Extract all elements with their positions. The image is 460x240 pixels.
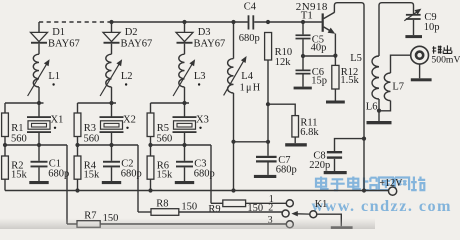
crystal X1 xyxy=(27,115,63,134)
wire collector to top rail and +12V feed xyxy=(334,3,364,139)
svg-text:680p: 680p xyxy=(276,165,297,176)
wire top line solid xyxy=(109,20,247,24)
capacitor C1 xyxy=(31,145,70,181)
ground C8 xyxy=(324,171,347,174)
resistor R5 xyxy=(147,113,172,144)
wire top dashed tuning line xyxy=(39,21,112,23)
label contact 2 xyxy=(268,202,273,213)
wire wiper to ground xyxy=(317,214,342,226)
svg-text:BAY67: BAY67 xyxy=(121,39,153,50)
switch K1 wiper xyxy=(291,199,327,218)
capacitor C7 xyxy=(256,155,297,175)
capacitor C2 xyxy=(103,145,142,181)
ground C9 xyxy=(405,35,422,38)
svg-text:L2: L2 xyxy=(121,71,133,82)
svg-text:500mV: 500mV xyxy=(431,54,460,65)
node C5-C6-emitter junction xyxy=(301,54,305,58)
resistor R8 xyxy=(138,198,282,215)
svg-text:X3: X3 xyxy=(196,115,209,126)
capacitor C6 xyxy=(296,56,327,87)
node stage3 top junction xyxy=(182,101,186,105)
svg-text:560: 560 xyxy=(157,133,173,144)
wire C5 junction to emitter xyxy=(303,55,335,57)
wire stage2 crystal column xyxy=(111,103,113,145)
diode D2 BAY67 xyxy=(103,22,152,54)
svg-text:150: 150 xyxy=(181,202,197,213)
svg-text:D3: D3 xyxy=(198,27,211,38)
svg-text:15k: 15k xyxy=(11,170,28,181)
resistor R3 xyxy=(74,113,99,144)
wire stage3 top rail xyxy=(151,102,190,104)
capacitor C3 xyxy=(176,145,215,181)
svg-text:15k: 15k xyxy=(157,170,174,181)
wire R11 feed xyxy=(268,104,295,115)
resistor R2 xyxy=(2,156,28,181)
resistor R7 xyxy=(67,210,286,227)
inductor L2 adjustable xyxy=(100,54,132,103)
ground C6 xyxy=(294,87,312,90)
inductor L7 secondary xyxy=(379,55,411,111)
svg-text:10p: 10p xyxy=(424,22,440,33)
label output 500mV xyxy=(431,45,460,65)
svg-text:15k: 15k xyxy=(84,170,101,181)
ground transformer xyxy=(367,121,392,124)
svg-text:6.8k: 6.8k xyxy=(300,127,319,138)
wire stage1 top rail xyxy=(5,102,44,104)
terminal +12V xyxy=(379,178,403,195)
resistor R12 xyxy=(332,56,360,89)
svg-text:L6: L6 xyxy=(366,101,378,112)
node L4 tap junction xyxy=(231,140,235,144)
svg-text:D2: D2 xyxy=(125,27,138,38)
svg-text:X2: X2 xyxy=(123,115,136,126)
svg-text:X1: X1 xyxy=(51,115,64,126)
diode D1 BAY67 xyxy=(31,22,80,54)
resistor R9 xyxy=(208,200,286,215)
wire stage3 left rail vertical xyxy=(150,103,152,191)
inductor L1 adjustable xyxy=(28,54,60,103)
svg-text:C4: C4 xyxy=(244,2,257,13)
svg-text:2: 2 xyxy=(268,202,273,213)
wire +12V feed lower xyxy=(363,139,365,191)
resistor R11 xyxy=(292,116,319,139)
crystal X2 xyxy=(100,115,136,134)
svg-text:560: 560 xyxy=(11,133,27,144)
ground switch xyxy=(331,226,353,229)
resistor R10 xyxy=(265,33,293,69)
svg-text:+12V: +12V xyxy=(379,178,403,189)
inductor L3 adjustable xyxy=(173,54,205,103)
wire stage3 feed to switch xyxy=(210,145,212,203)
node stage2 top junction xyxy=(109,101,113,105)
svg-text:1.5k: 1.5k xyxy=(340,75,359,86)
ground output connector xyxy=(411,78,432,81)
svg-text:L1: L1 xyxy=(48,71,60,82)
ground R11 xyxy=(285,143,307,146)
svg-text:L4: L4 xyxy=(241,71,253,82)
wire stage1 feed to switch xyxy=(66,145,68,224)
svg-text:40p: 40p xyxy=(311,43,327,54)
node stage1 top junction xyxy=(37,101,41,105)
svg-text:680p: 680p xyxy=(239,33,260,44)
wire L4 tap to C7 column xyxy=(234,141,268,143)
resistor R6 xyxy=(147,156,173,181)
svg-text:L5: L5 xyxy=(350,53,362,64)
node transformer bottom junction xyxy=(377,109,381,113)
svg-text:680p: 680p xyxy=(194,168,215,179)
ground stage3 capacitor xyxy=(175,181,194,184)
terminal contact 2 xyxy=(282,210,289,217)
inductor L4 adjustable xyxy=(224,22,262,95)
capacitor C8 xyxy=(309,139,364,172)
ground C7 xyxy=(254,175,276,178)
resistor R1 xyxy=(2,113,27,144)
svg-text:D1: D1 xyxy=(52,27,65,38)
wire stage3 middle xyxy=(148,143,211,147)
capacitor C9 trimmer xyxy=(404,9,439,35)
svg-text:K1: K1 xyxy=(315,199,327,210)
svg-text:T1: T1 xyxy=(301,10,313,22)
ground R12 xyxy=(326,101,345,104)
connector output socket xyxy=(411,46,429,78)
svg-text:220p: 220p xyxy=(309,160,330,171)
crystal X3 xyxy=(173,115,209,134)
svg-text:12k: 12k xyxy=(275,57,292,68)
svg-text:680p: 680p xyxy=(121,168,142,179)
ground stage2 capacitor xyxy=(102,181,121,184)
wire C4 to base xyxy=(254,20,322,24)
label contact 1 xyxy=(269,194,274,205)
scan shadow bottom xyxy=(0,218,375,229)
node R10-R11 junction xyxy=(266,102,270,106)
terminal contact 1 xyxy=(286,200,293,207)
wire R10 column down xyxy=(267,60,269,156)
wire base column down xyxy=(302,22,304,34)
svg-text:1μH: 1μH xyxy=(240,82,262,93)
wire stage1 crystal column xyxy=(38,103,40,145)
capacitor C4 xyxy=(239,2,260,45)
node C8 junction on +12V feed xyxy=(362,137,366,141)
wire stage2 middle xyxy=(75,143,138,147)
label contact 3 xyxy=(268,215,273,226)
svg-text:680p: 680p xyxy=(48,168,69,179)
wire stage1 left rail vertical xyxy=(4,103,6,191)
transistor T1 2N918 xyxy=(296,1,335,34)
svg-text:560: 560 xyxy=(84,133,100,144)
wire stage2 left rail vertical xyxy=(77,103,79,191)
svg-text:R8: R8 xyxy=(156,198,168,209)
svg-text:L7: L7 xyxy=(392,82,404,93)
svg-text:L3: L3 xyxy=(194,71,206,82)
svg-text:BAY67: BAY67 xyxy=(194,39,226,50)
svg-text:15p: 15p xyxy=(311,75,327,86)
wire stage2 top rail xyxy=(78,102,117,104)
ground stage1 capacitor xyxy=(29,181,48,184)
wire stage1 middle xyxy=(3,143,67,147)
wire emitter down xyxy=(334,34,336,56)
capacitor C5 xyxy=(296,34,327,56)
wire stage2 feed to switch xyxy=(137,145,139,212)
svg-text:www. cndzz. com: www. cndzz. com xyxy=(312,197,452,215)
diode D3 BAY67 xyxy=(176,22,225,54)
node R10-C7-L4 junction xyxy=(266,140,270,144)
watermark site name xyxy=(312,177,452,215)
wire R11 to ground xyxy=(294,137,296,143)
wire stage3 crystal column xyxy=(184,103,186,145)
wire +12V supply bus xyxy=(5,188,388,192)
svg-text:BAY67: BAY67 xyxy=(48,39,80,50)
wire R12 to ground xyxy=(334,89,336,101)
terminal contact 3 xyxy=(286,221,293,228)
resistor R4 xyxy=(74,156,100,181)
wire L4 down to supply bus xyxy=(233,93,235,191)
svg-text:R9: R9 xyxy=(208,204,220,215)
node emitter junction xyxy=(333,54,337,58)
inductor L5 L6 primary xyxy=(350,3,413,121)
